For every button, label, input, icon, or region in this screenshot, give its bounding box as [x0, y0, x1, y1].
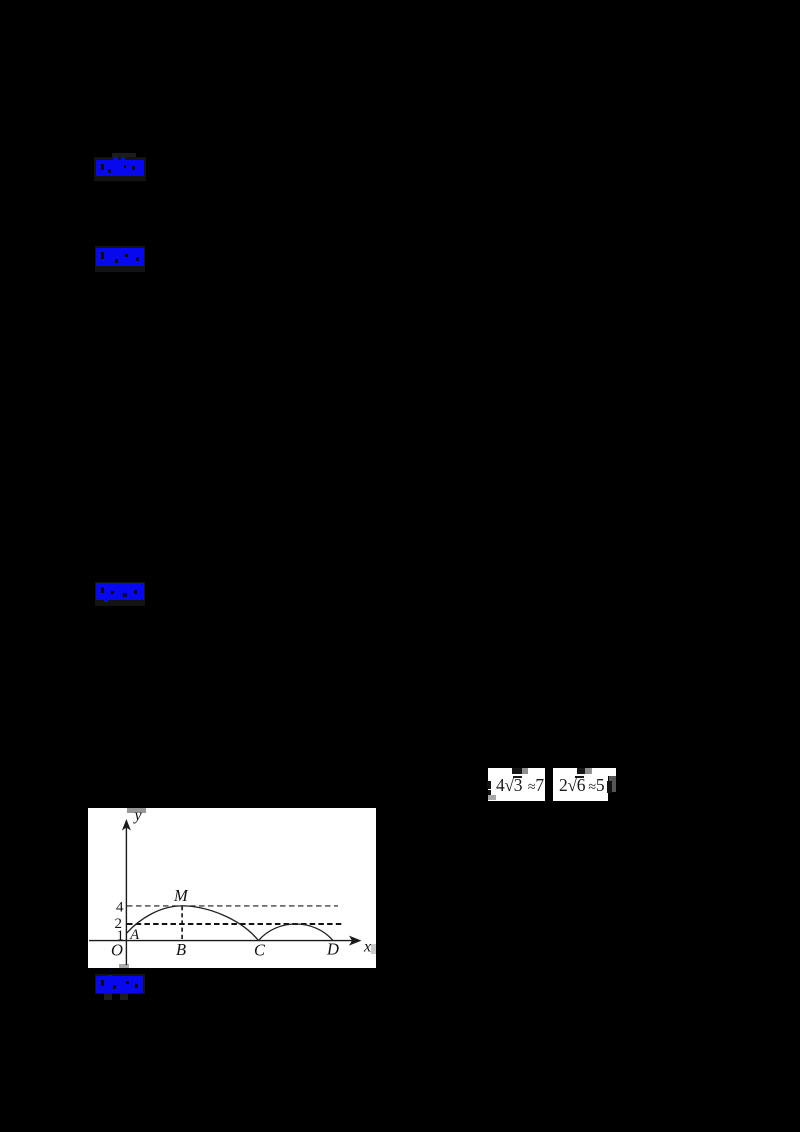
y axis arrowhead: [122, 819, 131, 831]
dashed vertical M-B: [181, 906, 183, 941]
svg-text:x: x: [363, 939, 371, 956]
x axis: [89, 940, 356, 942]
graph figure: [88, 808, 376, 968]
svg-text:A: A: [129, 927, 139, 943]
label halo 2: [95, 246, 145, 272]
svg-text:B: B: [176, 940, 186, 959]
blue label 4: [96, 975, 143, 993]
equation box 2 : 2*sqrt(6) approx 5: [553, 768, 608, 801]
svg-text:D: D: [326, 940, 339, 959]
blue label 2: [96, 248, 144, 266]
curve arc 2: [259, 924, 334, 941]
label halo 1: [112, 153, 136, 160]
blue label 3: [96, 583, 144, 602]
blue label 1: [96, 157, 144, 177]
label halo 4: [95, 974, 145, 994]
svg-text:4: 4: [116, 900, 124, 916]
svg-text:y: y: [133, 808, 143, 824]
curve arc 1: [126, 906, 258, 941]
dashed line y=4: [127, 905, 338, 907]
equation box 1 : 4*sqrt(3) approx 7: [488, 768, 545, 801]
dashed line y=2: [127, 923, 344, 925]
label halo 3: [95, 582, 145, 606]
y axis: [125, 826, 127, 965]
gray artifact right of x label: [371, 944, 376, 954]
svg-text:1: 1: [117, 928, 125, 944]
svg-text:M: M: [173, 886, 189, 905]
white background: [88, 808, 376, 968]
gray artifact bottom of y axis: [119, 964, 129, 968]
gray artifact top (above y label): [127, 808, 146, 813]
x axis arrowhead: [349, 936, 362, 946]
svg-text:C: C: [254, 941, 266, 960]
